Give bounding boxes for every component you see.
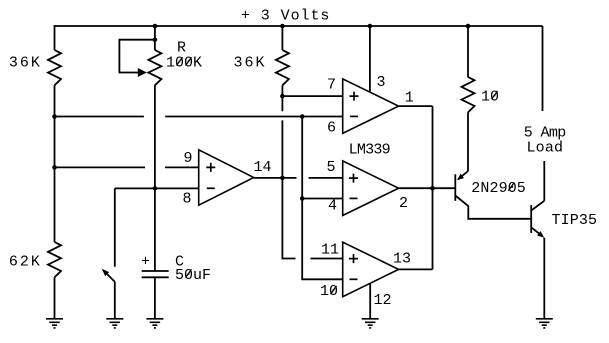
slashed zero of 2N2905 <box>508 183 514 191</box>
svg-text:100K: 100K <box>166 55 202 72</box>
svg-text:+: + <box>141 254 150 271</box>
switch S1 top contact <box>114 188 116 266</box>
svg-text:11: 11 <box>321 242 339 259</box>
transistor Q1 collector <box>455 196 531 219</box>
slashed zeros of 100K <box>177 57 192 65</box>
transistor Q1 2N2905 emitter <box>460 171 469 178</box>
comparator U2a plus sign <box>350 92 359 101</box>
ground Q2 <box>536 319 553 328</box>
transistor Q1 base bar <box>454 174 456 201</box>
svg-text:LM339: LM339 <box>349 142 391 159</box>
wire load top <box>542 26 544 111</box>
svg-text:5: 5 <box>327 159 336 176</box>
svg-text:+ 3 Volts: + 3 Volts <box>241 8 330 25</box>
Q1 emitter arrowhead <box>457 174 464 181</box>
resistor 10 ohm <box>462 77 475 112</box>
wire U2c output pin13 <box>399 268 433 270</box>
wire pin9 (gap at pot) <box>55 166 199 168</box>
resistor 36K left <box>48 50 61 85</box>
comparator U2a minus sign <box>350 115 358 117</box>
wire 36K mid bottom <box>281 85 283 96</box>
Q2 emitter arrowhead <box>537 231 544 238</box>
wire 10ohm to Q1 emitter <box>467 112 469 171</box>
node bus C top junction <box>300 114 305 119</box>
svg-text:2: 2 <box>399 195 408 212</box>
op-amp minus sign <box>207 187 215 189</box>
wire pot wiper loop <box>119 40 154 73</box>
wire pin6 reference line (gaps at pot) <box>55 116 343 118</box>
resistor 62K <box>48 242 61 277</box>
svg-text:8: 8 <box>183 190 192 207</box>
transistor Q2 TIP35 collector slant <box>531 201 544 211</box>
wire cap to ground <box>154 277 156 319</box>
wire bus B lower to pin11 <box>282 178 342 259</box>
op-amp U1 triangle <box>199 150 254 205</box>
node pot wiper junction <box>153 37 158 42</box>
comparator U2c minus sign <box>350 278 358 280</box>
svg-text:3: 3 <box>377 74 386 91</box>
wire switch to ground <box>114 282 116 319</box>
wire 10ohm top <box>467 25 469 77</box>
wire bus B upper (gap crossing pin6 wire) <box>281 96 283 178</box>
slashed zero of pin 10 <box>331 286 337 294</box>
wire pot top <box>154 25 156 50</box>
wire bus C vertical <box>302 117 343 280</box>
node left rail tap 9 <box>52 165 57 170</box>
svg-text:7: 7 <box>327 76 336 93</box>
comparator U2b minus sign <box>350 197 358 199</box>
node bus B at op-amp output <box>280 176 285 181</box>
wire op-amp output to pin5 (gap at bus C) <box>254 177 343 179</box>
comparator U2b triangle <box>343 161 399 216</box>
ground capacitor <box>146 319 163 328</box>
svg-text:12: 12 <box>374 292 392 309</box>
comparator U2c triangle <box>343 242 399 297</box>
slashed zero of 50uF <box>186 269 192 277</box>
wire Q2 emitter to ground <box>543 238 545 319</box>
wire 36K mid top <box>281 25 283 50</box>
svg-text:14: 14 <box>254 159 272 176</box>
transistor Q2 emitter <box>531 227 541 235</box>
wire output bus vertical <box>432 106 434 269</box>
capacitor C 50uF <box>142 271 169 277</box>
wire left rail middle <box>54 85 56 242</box>
svg-text:62K: 62K <box>9 253 40 270</box>
wire U2a output pin1 <box>399 105 433 107</box>
node left rail tap 6 <box>52 114 57 119</box>
comparator U2b plus sign <box>349 174 358 183</box>
wire 62K to ground <box>54 277 56 319</box>
node bus C at pin4 <box>300 196 305 201</box>
node 10ohm rail dot <box>466 24 471 29</box>
wire +3V top rail <box>55 25 543 27</box>
svg-text:13: 13 <box>393 251 411 268</box>
op-amp plus sign <box>206 163 215 172</box>
comparator U2a triangle <box>343 79 399 133</box>
potentiometer R 100K <box>148 50 161 85</box>
svg-text:10: 10 <box>320 283 338 300</box>
svg-text:2N2905: 2N2905 <box>471 180 526 197</box>
wire pot bottom to cap <box>154 85 156 271</box>
svg-text:36K: 36K <box>9 55 40 72</box>
switch S1 arm <box>107 274 115 282</box>
svg-text:TIP35: TIP35 <box>552 212 598 229</box>
wire load bottom to Q2 collector <box>543 161 545 201</box>
switch S1 arrowhead <box>102 269 109 276</box>
slashed zero of 10 <box>492 91 498 99</box>
node bus B top junction <box>280 94 285 99</box>
ground pin12 <box>362 319 379 328</box>
node output bus junction <box>430 186 435 191</box>
comparator U2c plus sign <box>349 254 358 263</box>
transistor Q2 base bar <box>530 205 532 233</box>
wire pin4 <box>302 198 343 200</box>
wire U2b output to Q1 base <box>399 187 456 189</box>
wire pin 3 supply <box>369 25 371 92</box>
svg-text:4: 4 <box>328 197 337 214</box>
svg-text:Load: Load <box>527 140 564 157</box>
svg-text:36K: 36K <box>234 55 265 72</box>
wire pin8 <box>115 187 199 189</box>
node cap / pin8 junction <box>153 186 158 191</box>
ground switch <box>106 319 123 328</box>
resistor 36K middle <box>276 50 289 85</box>
wire left rail top <box>54 25 56 50</box>
node 36K mid top rail dot <box>280 24 285 29</box>
svg-text:1: 1 <box>405 89 414 106</box>
wire pin 12 to ground <box>369 283 371 319</box>
svg-text:9: 9 <box>184 150 193 167</box>
wiper arrow of R 100K <box>138 68 147 77</box>
svg-text:50uF: 50uF <box>175 267 211 284</box>
wire pin7 <box>282 95 342 97</box>
ground 62K <box>46 319 63 328</box>
svg-text:10: 10 <box>481 88 499 105</box>
node pin3 rail dot <box>368 24 373 29</box>
svg-text:6: 6 <box>327 119 336 136</box>
node pot top rail dot <box>153 24 158 29</box>
